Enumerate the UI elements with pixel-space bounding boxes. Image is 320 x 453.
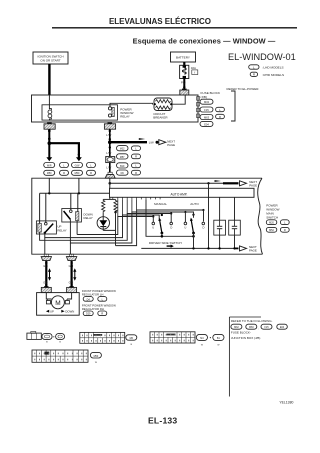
svg-text:R: R [90, 171, 92, 175]
arrow down left wire [46, 157, 52, 161]
wire across to next page (top right) [110, 180, 239, 183]
fuse block edge pins [197, 97, 200, 118]
window motor box [37, 293, 80, 316]
wire amp to C2 [233, 197, 235, 249]
svg-text:W/R: W/R [47, 164, 52, 167]
middle variant R a [132, 154, 141, 159]
connector oval M50 a [44, 170, 55, 175]
wire loop k1 to N1 [45, 215, 159, 238]
switch SW2 auto [184, 213, 205, 234]
middle oval M57 [117, 154, 129, 159]
connector oval D29 [83, 311, 93, 316]
variant oval R [216, 114, 225, 119]
up-down arrow beside G/R wire [73, 268, 76, 281]
legend RHD models oval [250, 72, 284, 77]
wire bus to up relay contact [45, 193, 47, 222]
wire L/W to next page (thick) [110, 138, 147, 142]
wire LED bottom loop [103, 212, 115, 230]
wire bus to down relay contact [70, 193, 72, 209]
fuse block J/B outer box [32, 95, 199, 122]
connector F15 oval [200, 107, 213, 112]
fuse block label [201, 91, 222, 99]
svg-text:AUTO: AUTO [190, 202, 199, 206]
svg-text:G/W: G/W [75, 164, 81, 167]
svg-text:P/U: P/U [181, 80, 186, 84]
wire battery to fusible link [183, 62, 185, 66]
up-down arrow beside G/B wire [48, 268, 51, 281]
connector M32 oval [200, 99, 213, 104]
node above LH connector [45, 284, 47, 286]
connector oval W/R [44, 163, 55, 168]
middle oval D6 [117, 170, 129, 175]
arrow down right wire [76, 157, 82, 161]
label front power window regulator RH [82, 304, 116, 312]
svg-text:RELAY: RELAY [84, 216, 93, 220]
variant oval R main [280, 227, 289, 232]
title ELEVALUNAS ELECTRICO [109, 17, 211, 26]
diagram id EL-WINDOW-01 [228, 52, 296, 62]
down relay D1 [62, 209, 93, 223]
connector 1 at main box top [105, 172, 115, 178]
grid cell digit marks row1 [34, 334, 193, 360]
svg-text:AUTO AMP.: AUTO AMP. [171, 192, 188, 196]
node above RH connector [70, 284, 72, 286]
svg-text:F15: F15 [204, 108, 209, 112]
ignition switch box [33, 52, 68, 64]
svg-text:M32: M32 [204, 100, 210, 104]
auto amp pin ticks [113, 197, 160, 199]
variant oval R2 [87, 170, 96, 175]
svg-text:YEL1380: YEL1380 [279, 401, 293, 405]
svg-text:ELEVALUNAS ELÉCTRICO: ELEVALUNAS ELÉCTRICO [109, 17, 211, 26]
connector oval M50 b [72, 170, 83, 175]
bus bottom to next page [141, 199, 238, 248]
power window relay [108, 107, 133, 119]
connector regulator LH [41, 286, 51, 292]
svg-text:SWITCH: SWITCH [266, 215, 278, 219]
svg-text:REFER TO EL-POWER.: REFER TO EL-POWER. [227, 87, 260, 91]
svg-text:D: D [203, 226, 205, 230]
node below pin3 [70, 262, 72, 264]
junction node L/W [108, 140, 112, 144]
svg-text:U: U [184, 226, 186, 230]
svg-text:R: R [135, 155, 137, 159]
wire G/B thick [45, 261, 47, 287]
svg-text:M32: M32 [120, 148, 125, 151]
svg-text:: LHD MODELS: : LHD MODELS [262, 66, 284, 70]
svg-text:RELAY: RELAY [120, 115, 130, 119]
label front power window regulator LH [82, 289, 116, 297]
wire bus to up relay coil [39, 193, 41, 223]
fuse 10A symbol [48, 95, 52, 121]
svg-text:E04: E04 [280, 326, 285, 329]
fuse block inner box [42, 105, 118, 120]
connector E51 at fuse block top [180, 89, 189, 95]
LED indicator [97, 213, 109, 231]
label power window main switch [266, 204, 279, 220]
connector oval M52 [266, 227, 277, 232]
svg-text:M50: M50 [94, 355, 99, 358]
svg-text:PAGE: PAGE [249, 183, 257, 187]
power window main switch box outline [32, 178, 263, 254]
variant oval L [216, 107, 225, 112]
svg-text:L/W: L/W [106, 165, 111, 169]
connector oval D4 [83, 297, 93, 302]
wire loop k3 to U2 [70, 212, 193, 243]
svg-text:UP: UP [50, 310, 54, 314]
svg-text:M32: M32 [234, 326, 239, 329]
node on wire at x208 [207, 182, 209, 184]
svg-text:: RHD MODELS: : RHD MODELS [262, 73, 284, 77]
svg-text:JUNCTION BOX (J/B): JUNCTION BOX (J/B) [231, 336, 261, 340]
title rule [52, 27, 297, 29]
wire relay to circuit breaker [110, 103, 153, 107]
variant oval R reg [98, 311, 107, 316]
svg-text:M52: M52 [269, 229, 274, 232]
svg-text:L/W: L/W [106, 151, 111, 155]
refer-to legend divider [229, 317, 261, 397]
wire SW2 pivot down [193, 233, 195, 248]
svg-text:Esquema de conexiones — WINDOW: Esquema de conexiones — WINDOW — [133, 36, 276, 45]
svg-text:M63: M63 [204, 115, 210, 119]
connector E04 oval [200, 121, 213, 126]
wire stub from box top left [48, 178, 50, 193]
connector face B75 small [27, 332, 41, 340]
svg-text:FUSE BLOCK-: FUSE BLOCK- [231, 331, 251, 335]
svg-text:L/W: L/W [106, 133, 111, 137]
connector label M4 oval [196, 334, 207, 346]
capacitor C1 box [214, 220, 226, 235]
wire fusible link down P/U [181, 79, 186, 90]
svg-text:BREAKER: BREAKER [153, 116, 168, 120]
svg-text:E04: E04 [204, 122, 209, 126]
next page arrow (top middle) [159, 139, 175, 147]
svg-text:M: M [55, 300, 60, 307]
node below resistor R2 [114, 211, 116, 213]
svg-text:M50: M50 [47, 172, 52, 175]
wire bus to down relay coil [77, 193, 79, 211]
connector label M50 oval [90, 352, 101, 363]
middle variant L a [132, 146, 141, 151]
circuit breaker [153, 98, 172, 120]
subtitle Esquema de conexiones WINDOW [133, 36, 276, 45]
svg-text:,: , [243, 326, 244, 330]
svg-text:RELAY: RELAY [57, 228, 66, 232]
connector below relay (middle) [104, 123, 115, 130]
wire x208 down [207, 183, 209, 249]
connector face grid M6 [80, 332, 125, 343]
refer oval M32 [231, 324, 244, 330]
variant oval L reg [98, 297, 107, 302]
wire L/W down from relay connector [109, 129, 111, 142]
node bus x193 [192, 247, 194, 249]
label driver side switch [149, 241, 182, 248]
connector oval G/W [72, 163, 83, 168]
wire loop k2 to D1 [40, 214, 172, 241]
connector label B1 oval [213, 334, 224, 346]
refer to EL-POWER note [227, 87, 260, 121]
svg-text:DOWN: DOWN [65, 310, 74, 314]
wire pivot to pin1 [44, 238, 46, 255]
motor M [46, 296, 69, 309]
svg-text:M57: M57 [120, 156, 125, 159]
svg-text:REGULATOR LH: REGULATOR LH [82, 292, 104, 296]
svg-text:U: U [152, 226, 154, 230]
connector M63 oval [200, 115, 213, 120]
wire loop k0 to U1 [77, 217, 153, 235]
resistor R1 [102, 199, 105, 212]
switch stub junction nodes [152, 209, 204, 218]
refer fuse block note [231, 331, 261, 340]
node dot before arrow [156, 141, 159, 144]
wire W/R down from fuse connector (thick) [48, 129, 51, 158]
node L/W entry [109, 182, 112, 185]
svg-text:R: R [101, 312, 103, 316]
wire circuit breaker to battery connector [172, 95, 185, 104]
battery box [171, 52, 196, 62]
resistor R2 [114, 199, 117, 212]
svg-text:M63: M63 [249, 326, 254, 329]
variant oval L main [280, 220, 289, 225]
pin 1 main switch bottom [41, 254, 51, 260]
wire entry down to amp [109, 178, 111, 188]
refer oval E04 [277, 324, 288, 329]
svg-text:EL-WINDOW-01: EL-WINDOW-01 [228, 52, 296, 62]
svg-text:D29: D29 [86, 313, 91, 316]
svg-text:EL-133: EL-133 [148, 415, 177, 425]
capacitor C2 box [229, 220, 241, 235]
wire loop k4 from LED branch [116, 210, 204, 246]
legend LHD models oval [249, 65, 284, 70]
connector face grid M50 [32, 350, 88, 362]
connector face oval 2 [56, 334, 65, 344]
middle variant L b [132, 163, 141, 168]
motor UP arrow [46, 310, 54, 314]
switch SW1 manual [152, 213, 173, 234]
variant oval L [60, 163, 69, 168]
svg-text:D: D [170, 226, 172, 230]
auto amp box [110, 188, 255, 197]
middle oval B19 [117, 163, 129, 168]
next page arrow bottom right [240, 245, 257, 253]
pin 3 main switch bottom [66, 254, 76, 260]
connector face oval 1 [42, 334, 52, 344]
refer oval F15 [261, 324, 274, 330]
svg-text:M20: M20 [269, 222, 274, 225]
connector below fuse (left) [44, 123, 55, 130]
svg-text:PAGE: PAGE [167, 143, 175, 147]
separator dots bottom row [53, 336, 54, 337]
svg-text:R: R [219, 115, 221, 119]
wire L/W label 3 [106, 163, 111, 173]
junction node left column [48, 141, 52, 145]
svg-text:REFER TO THE FOLLOWING.: REFER TO THE FOLLOWING. [231, 319, 273, 323]
connector label M6 oval [126, 335, 137, 346]
next page arrow top right [240, 180, 258, 188]
middle oval stack M32 [117, 146, 129, 151]
wire ignition to fuse block (thick) [48, 64, 50, 95]
middle variant R b [132, 170, 141, 175]
variant oval L2 [87, 163, 96, 168]
connector oval M20 [266, 220, 277, 225]
svg-text:M50: M50 [75, 172, 80, 175]
EL-133 page number [148, 415, 177, 425]
svg-text:F15: F15 [264, 326, 269, 329]
wire down relay to pin3 [69, 243, 71, 254]
connector regulator RH [67, 286, 77, 292]
svg-text:PAGE: PAGE [249, 249, 257, 253]
wire stub from box top right [78, 178, 80, 193]
svg-text:BATTERY: BATTERY [176, 56, 190, 60]
svg-text:R: R [135, 171, 137, 175]
svg-text:R: R [284, 228, 286, 232]
inline connector middle [106, 157, 115, 163]
wire branch to right arrow (thick) [49, 143, 80, 157]
wire amp to resistors [103, 197, 115, 199]
bus wire y193 [40, 192, 110, 194]
amp output riser wires [118, 199, 137, 216]
svg-text:B19: B19 [120, 165, 125, 168]
fusible link [180, 65, 189, 78]
refer oval M63 [246, 324, 259, 330]
wires into motor [46, 293, 71, 299]
svg-text:R: R [63, 171, 65, 175]
up relay U1 [36, 221, 66, 234]
wire amp to C1 [218, 197, 220, 249]
connector face grid M4 [150, 332, 195, 343]
motor DOWN arrow [61, 310, 74, 314]
svg-text:(J/B): (J/B) [201, 95, 208, 99]
svg-text:DRIVER SIDE SWITCH: DRIVER SIDE SWITCH [149, 241, 182, 245]
svg-text:MANUAL: MANUAL [154, 202, 167, 206]
variant oval R [60, 170, 69, 175]
wire L/W continues down [106, 142, 111, 156]
svg-text:ON OR START: ON OR START [40, 58, 60, 62]
value 40A [191, 66, 198, 74]
wire G/R thick [70, 261, 72, 287]
plate code YEL1380 [279, 401, 293, 405]
svg-text:L/W: L/W [149, 141, 154, 145]
node below pin1 [45, 262, 47, 264]
